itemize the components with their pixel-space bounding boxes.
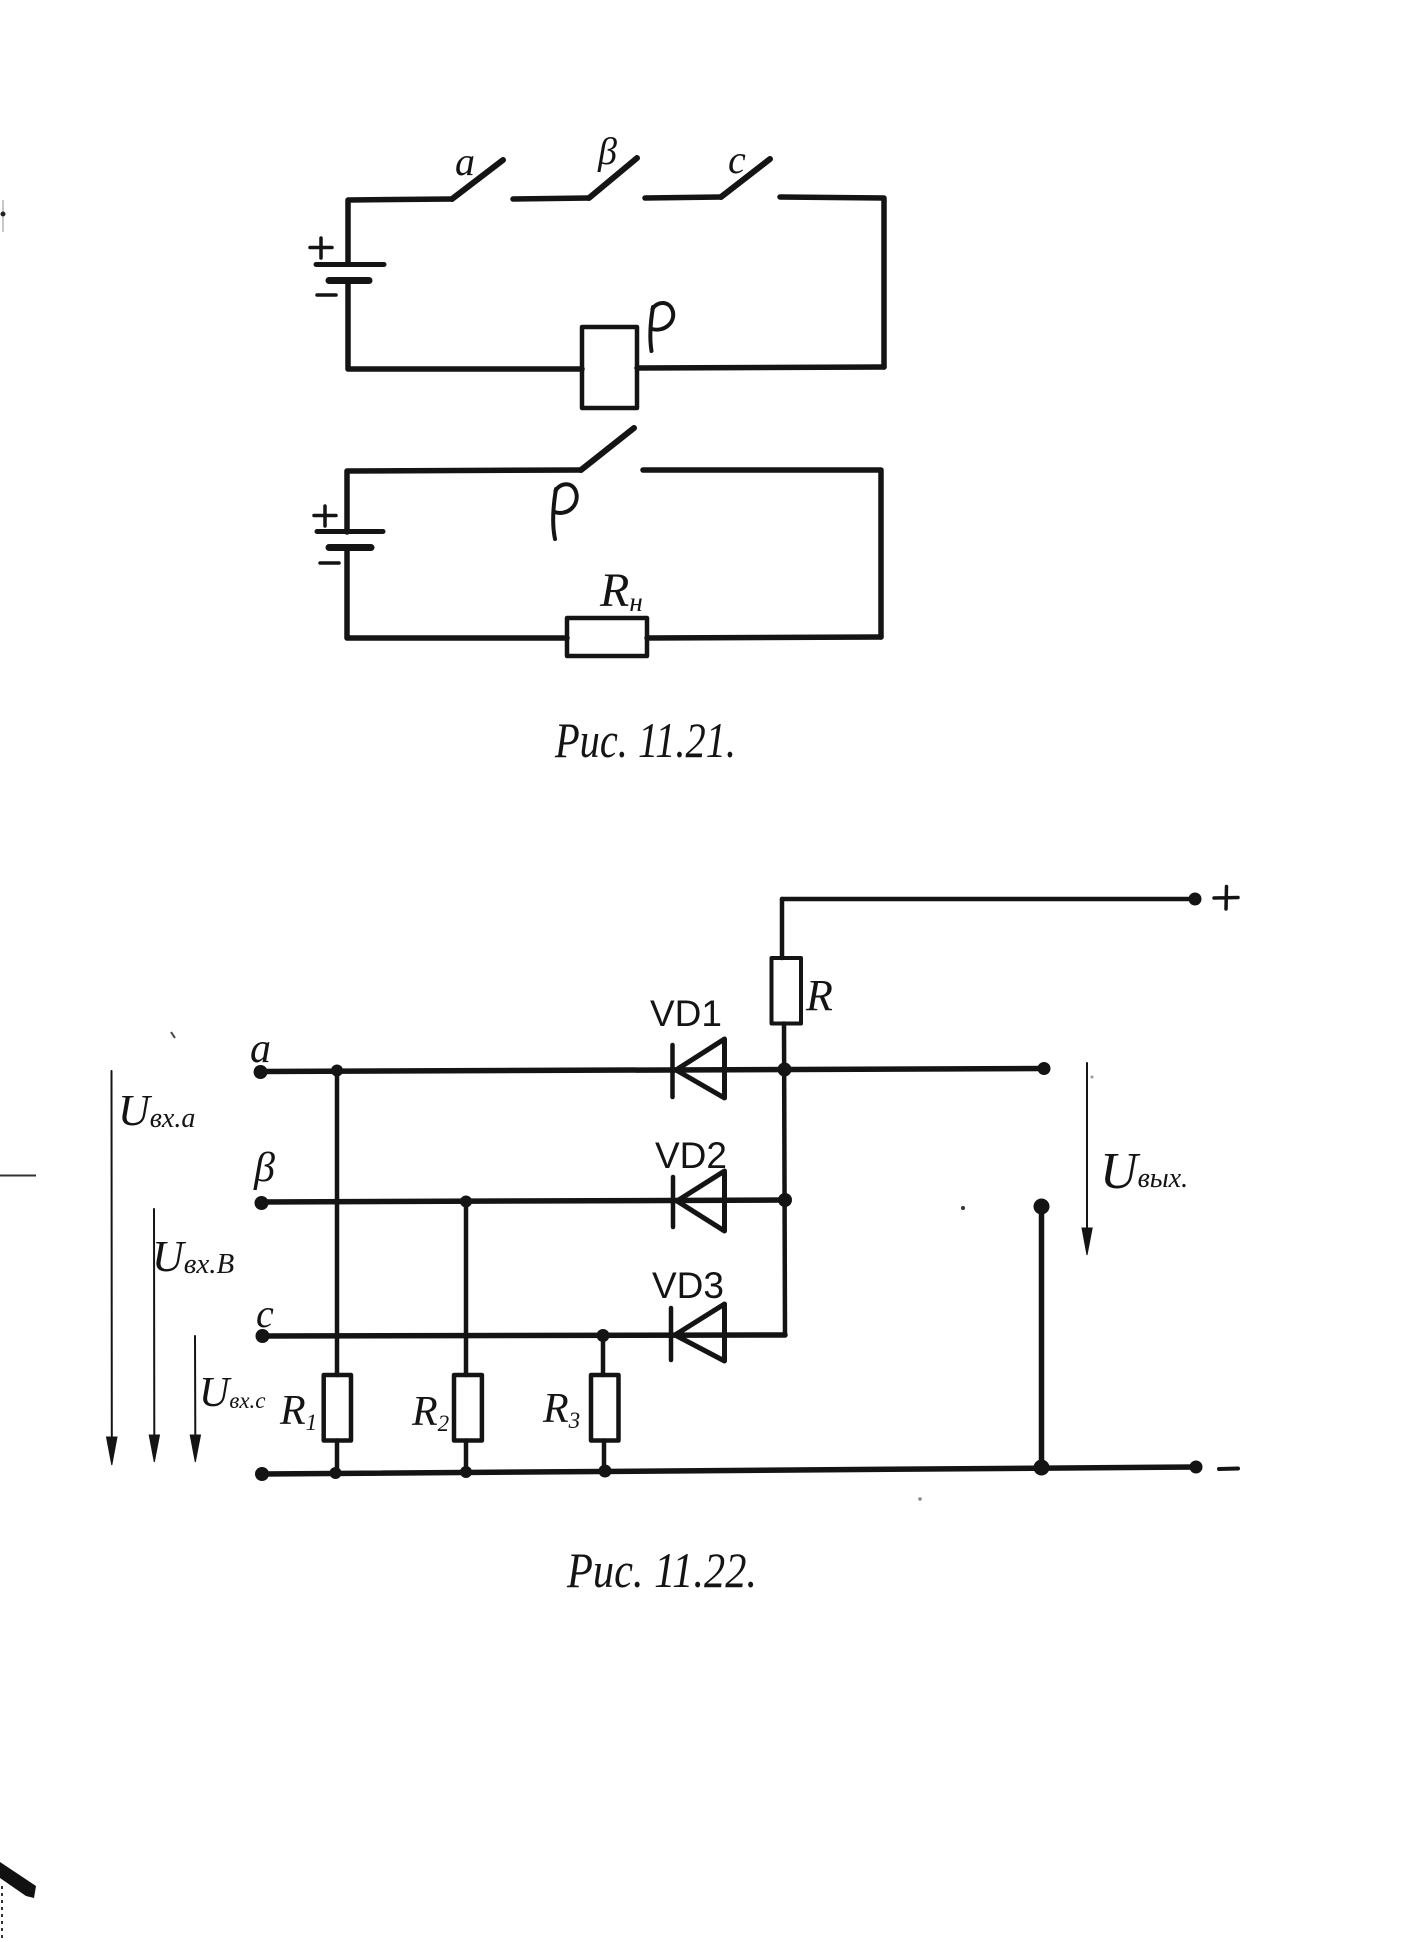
resistor R1 (324, 1375, 351, 1441)
svg-text:β: β (253, 1145, 275, 1191)
switch c (721, 159, 770, 197)
svg-text:R: R (805, 971, 833, 1020)
label P (switch of lower circuit) (553, 484, 577, 539)
battery B2 short plate (329, 544, 371, 551)
wire: line b (261, 1200, 785, 1202)
diode VD3 cathode bar (669, 1308, 674, 1360)
dash artifact at left edge (0, 1175, 36, 1177)
diode VD1 cathode bar (670, 1045, 675, 1097)
node: bottom rail / output vertical junction (1034, 1460, 1050, 1476)
svg-text:VD2: VD2 (655, 1135, 727, 1176)
wire: top-right segment and right side (lower circuit) (643, 470, 881, 637)
svg-text:R2: R2 (411, 1389, 449, 1436)
wire: bottom left of Rn (347, 551, 567, 638)
arrow Uvyh (1086, 1063, 1088, 1228)
diode VD1 triangle (676, 1039, 725, 1098)
wire: R1 to bottom rail (335, 1441, 340, 1474)
node: line c left terminal dot (256, 1329, 270, 1343)
node: line b / R2 junction (460, 1196, 472, 1208)
switch b (589, 158, 637, 198)
switch P contact blade (581, 428, 634, 470)
relay coil P (582, 327, 637, 408)
svg-text:β: β (597, 131, 617, 173)
svg-text:c: c (728, 137, 746, 182)
plus sign battery B2 (314, 506, 336, 526)
node: bottom rail / R2 junction (460, 1466, 472, 1478)
svg-text:a: a (250, 1026, 271, 1072)
wire: bottom left of relay (348, 282, 582, 369)
node: bottom rail left terminal dot (255, 1467, 269, 1481)
svg-text:Uвх.а: Uвх.а (118, 1086, 195, 1135)
svg-text:R3: R3 (542, 1386, 580, 1433)
node: bottom rail / R3 junction (599, 1465, 612, 1478)
arrow Uvx.b (153, 1209, 155, 1435)
svg-text:Rн: Rн (599, 564, 643, 617)
wire: plus rail (782, 897, 1195, 902)
wire: line c (262, 1335, 785, 1336)
node: line a / R1 junction (331, 1065, 343, 1077)
minus sign battery B2 (320, 561, 339, 565)
wire: R3 to bottom rail (602, 1441, 607, 1471)
faint speck below bottom rail (918, 1497, 922, 1501)
svg-text:Uвх.В: Uвх.В (152, 1232, 234, 1281)
battery B1 short plate (329, 277, 369, 284)
svg-text:VD1: VD1 (650, 993, 722, 1034)
node: line b left terminal dot (255, 1196, 269, 1210)
wire: bottom minus rail (262, 1467, 1196, 1474)
minus sign battery B1 (317, 293, 336, 297)
minus sign terminal (1219, 1467, 1238, 1472)
resistor Rn (567, 618, 647, 656)
svg-text:Uвх.с: Uвх.с (199, 1370, 266, 1416)
wire: output right vertical (1039, 1206, 1045, 1468)
speck near label Uvx.a (171, 1032, 175, 1038)
node: line a left terminal dot (254, 1065, 268, 1079)
diode VD2 triangle (677, 1171, 725, 1231)
svg-text:Uвых.: Uвых. (1100, 1143, 1188, 1200)
node: bottom rail right terminal dot (1190, 1461, 1203, 1474)
wire: from line c node down to R3 (601, 1335, 606, 1375)
plus sign battery B1 (310, 238, 332, 258)
faint speck right of node a (1091, 1076, 1094, 1079)
label P (relay) (650, 303, 673, 351)
svg-text:a: a (455, 139, 475, 184)
wire: R2 to bottom rail (464, 1441, 469, 1473)
node: line a right terminal dot (1038, 1062, 1051, 1075)
plus sign terminal (1214, 887, 1238, 910)
wire: between switch a and switch b (513, 198, 589, 199)
svg-text:c: c (256, 1291, 274, 1336)
wire: from plus rail down to R (780, 899, 785, 958)
wire: top-left segment (348, 199, 452, 263)
bottom-left dotted edge line (1, 1886, 3, 1942)
wire: bottom right of Rn (647, 637, 881, 638)
svg-text:Рис. 11.21.: Рис. 11.21. (554, 712, 736, 768)
arrow Uvx.c (194, 1336, 196, 1435)
diode VD2 cathode bar (671, 1177, 676, 1227)
wire: from line a node down to R1 (335, 1071, 340, 1376)
speck left of output vertical (961, 1206, 965, 1210)
battery B1 long plate (316, 262, 384, 267)
wire: R down to line c (through nodes a and b) (784, 1024, 785, 1336)
diode VD3 triangle (675, 1304, 725, 1361)
node: line c / R3 junction (597, 1329, 610, 1342)
switch a (452, 160, 503, 199)
node: line a / R vertical junction (778, 1063, 792, 1077)
wire: top-left segment (lower circuit) (347, 470, 581, 532)
battery B2 long plate (317, 529, 383, 534)
svg-text:Рис. 11.22.: Рис. 11.22. (566, 1542, 757, 1598)
wire: from line b node down to R2 (464, 1202, 469, 1376)
resistor R2 (454, 1375, 482, 1441)
node: bottom rail / R1 junction (330, 1467, 342, 1479)
wire: top-right segment and right side (780, 197, 884, 367)
svg-text:VD3: VD3 (652, 1265, 724, 1306)
node: line b / vertical junction (778, 1193, 792, 1207)
resistor R3 (591, 1375, 619, 1441)
wire: line a (260, 1069, 1044, 1072)
svg-text:R1: R1 (279, 1388, 317, 1435)
wire: between switch b and switch c (645, 197, 721, 198)
node: output vertical top dot (1034, 1199, 1050, 1215)
wire: bottom right of relay (637, 367, 884, 368)
resistor R (772, 958, 802, 1024)
node: plus terminal dot (1189, 893, 1202, 906)
bottom-left corner ink hook (0, 1862, 36, 1898)
speck artifact at left edge (2, 200, 4, 232)
arrow Uvx.a (111, 1071, 113, 1437)
